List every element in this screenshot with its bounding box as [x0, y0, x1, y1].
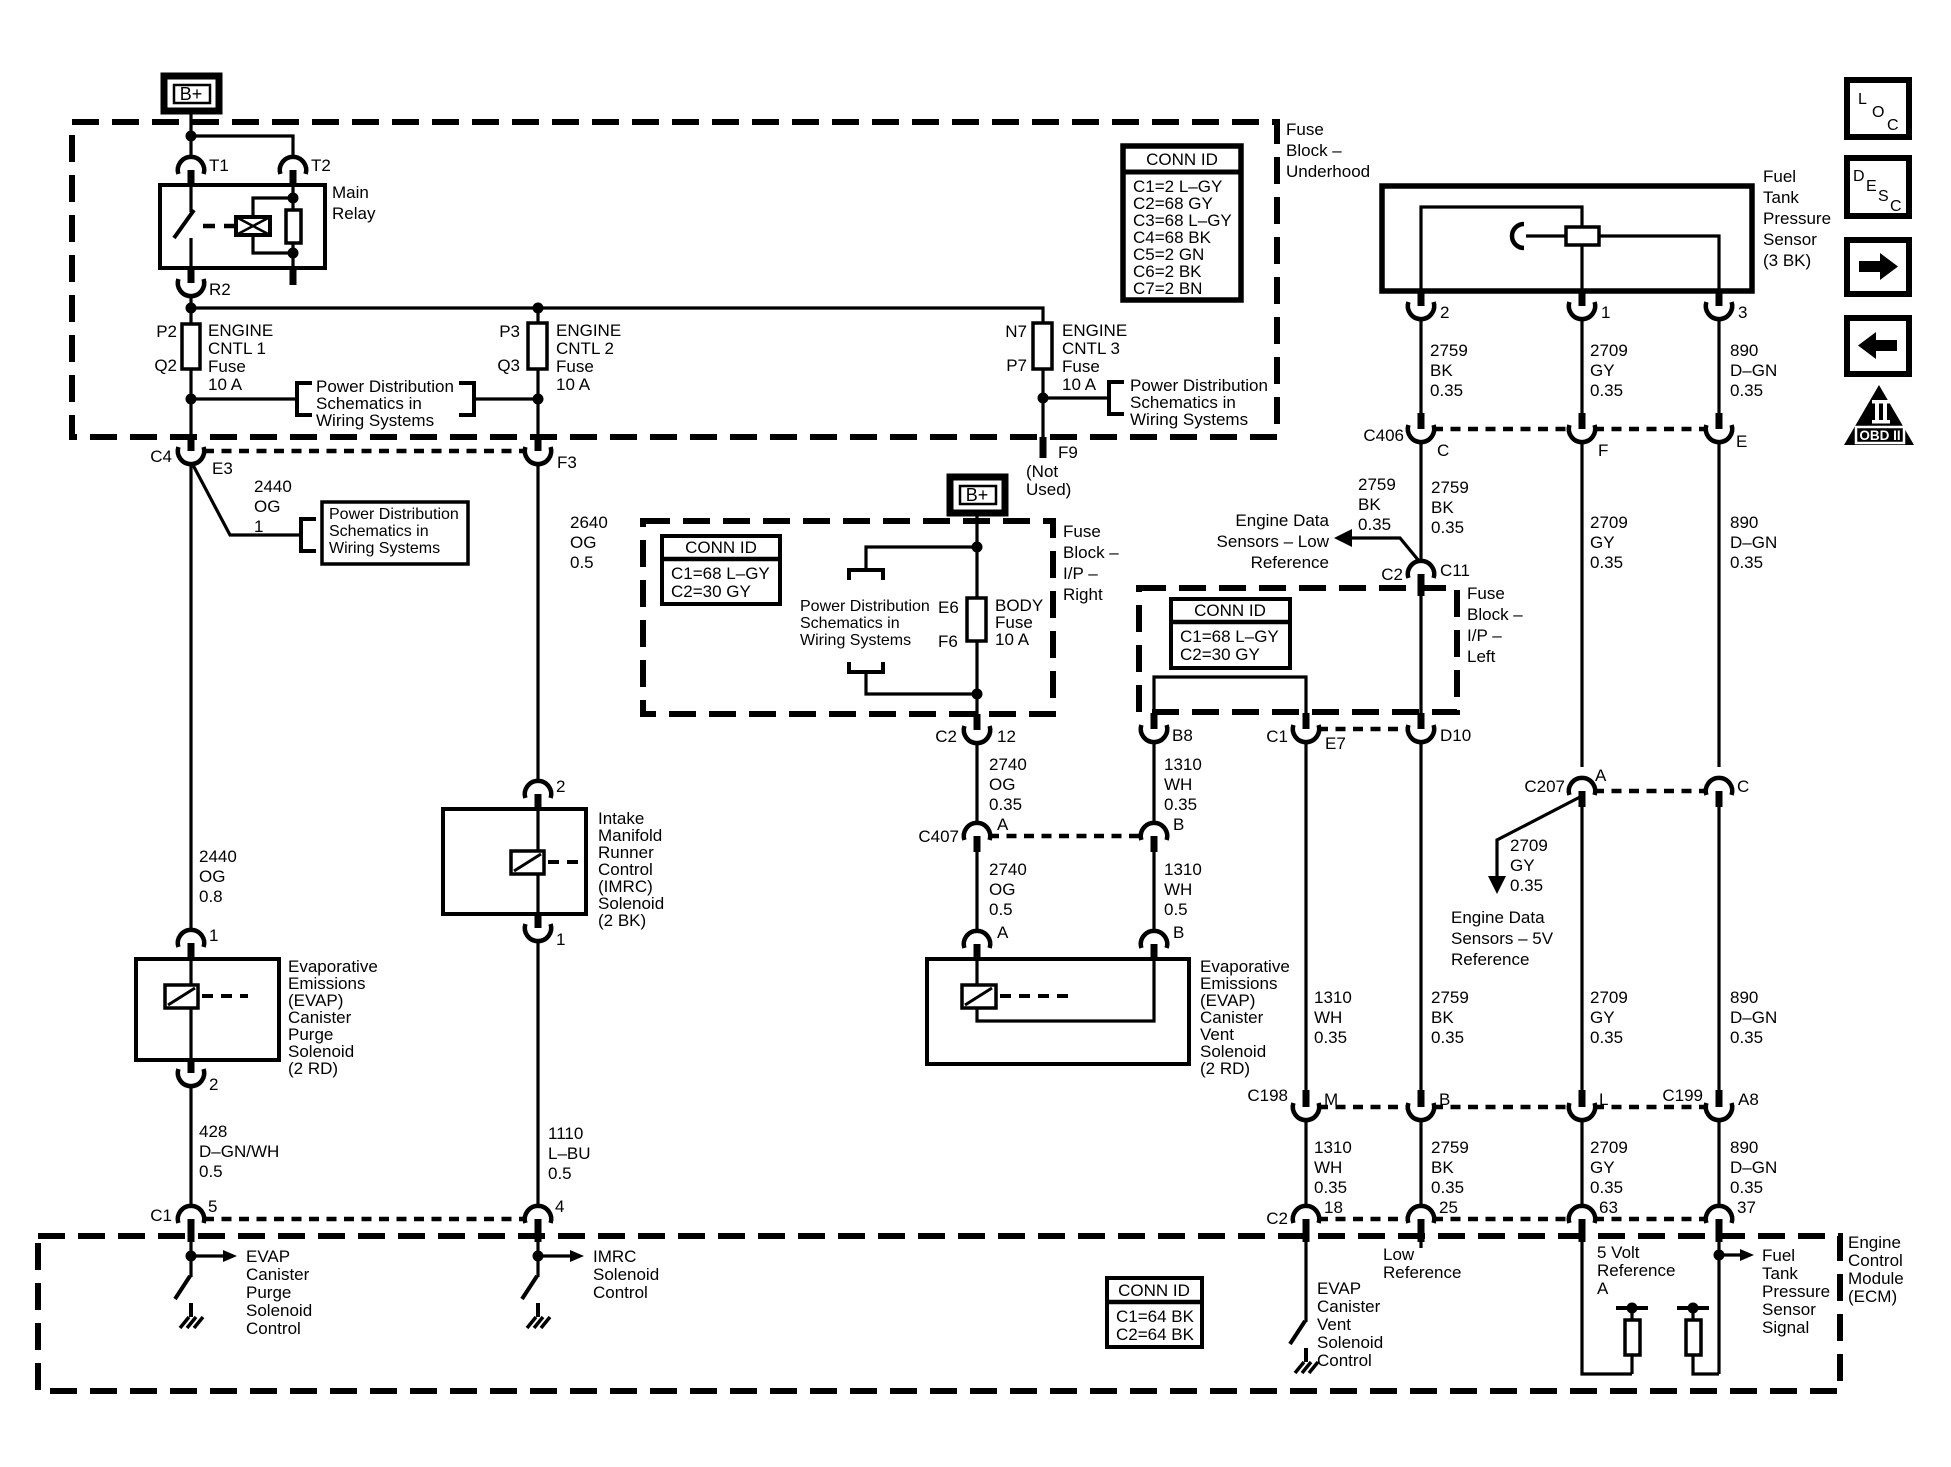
relay K1 Main Relay box	[160, 185, 325, 268]
svg-text:E6: E6	[938, 598, 959, 617]
svg-text:Q3: Q3	[497, 356, 520, 375]
svg-text:OG: OG	[989, 880, 1015, 899]
connector C4 pin E3	[150, 437, 233, 478]
svg-text:Underhood: Underhood	[1286, 162, 1370, 181]
svg-text:Schematics in: Schematics in	[800, 615, 900, 632]
connector row C198 dotted	[1318, 1105, 1707, 1110]
svg-text:Main: Main	[332, 183, 369, 202]
wire 890 D-GN 0.35 C207 to C199	[1717, 807, 1720, 1090]
svg-text:C11: C11	[1440, 561, 1470, 580]
wire C11 to D10 internal	[1419, 596, 1422, 713]
svg-text:Engine Data: Engine Data	[1451, 908, 1545, 927]
svg-text:Block –: Block –	[1467, 605, 1523, 624]
svg-text:CONN ID: CONN ID	[1146, 150, 1218, 169]
svg-text:GY: GY	[1590, 533, 1615, 552]
connector vent solenoid pin B	[1141, 923, 1185, 959]
fuse F2 ENGINE CNTL 2	[497, 308, 621, 394]
svg-text:0.5: 0.5	[1164, 900, 1188, 919]
svg-text:0.5: 0.5	[570, 553, 594, 572]
svg-text:N7: N7	[1005, 322, 1027, 341]
label wire 1110 L-BU 0.5	[548, 1124, 591, 1183]
svg-text:BK: BK	[1431, 1008, 1454, 1027]
svg-text:10 A: 10 A	[556, 375, 591, 394]
wire ECM fuel tank pressure signal pin	[1717, 1242, 1720, 1374]
svg-text:Power Distribution: Power Distribution	[329, 506, 459, 523]
label wire 2440 OG 0.8	[199, 847, 237, 906]
svg-text:EVAP: EVAP	[246, 1247, 290, 1266]
svg-text:Fuse: Fuse	[208, 357, 246, 376]
wire ECM evap purge driver	[189, 1242, 192, 1277]
wire fuse2 to F3 edge	[536, 369, 539, 437]
svg-text:ENGINE: ENGINE	[1062, 321, 1127, 340]
label wire 890 D-GN 0.35 top	[1730, 341, 1777, 400]
label wire 2740 OG 0.5	[989, 860, 1027, 919]
svg-text:Sensors – Low: Sensors – Low	[1217, 532, 1330, 551]
table CONN ID ECM	[1107, 1278, 1202, 1347]
connector purge solenoid pin 2	[178, 1060, 219, 1094]
svg-text:0.35: 0.35	[1358, 515, 1391, 534]
wire 2709 GY 0.35 C406 to C207	[1580, 441, 1583, 767]
label wire 2709 GY 0.35 mid	[1590, 513, 1628, 572]
node junction purge driver	[186, 1251, 197, 1262]
svg-text:B: B	[1173, 923, 1184, 942]
svg-text:2: 2	[209, 1075, 218, 1094]
svg-text:Schematics in: Schematics in	[329, 523, 429, 540]
label 5 Volt Reference A	[1597, 1243, 1675, 1298]
svg-text:E7: E7	[1325, 734, 1346, 753]
svg-text:B: B	[1439, 1090, 1450, 1109]
wire C406-C to C11	[1419, 441, 1422, 562]
svg-text:Solenoid: Solenoid	[246, 1301, 312, 1320]
label wire 2440 OG 1	[254, 477, 292, 536]
node junction P7	[1038, 393, 1049, 404]
svg-text:(2 RD): (2 RD)	[1200, 1059, 1250, 1078]
wire to PDS bracket CNTL1	[191, 397, 296, 400]
svg-text:GY: GY	[1510, 856, 1535, 875]
wire to PDS bracket CNTL3	[1043, 396, 1109, 399]
battery feed B+ symbol	[164, 76, 219, 111]
svg-text:OG: OG	[989, 775, 1015, 794]
connector row C2 ECM dotted	[1318, 1217, 1707, 1222]
node junction at B+ branch	[186, 131, 197, 142]
solenoid L3 EVAP canister vent	[927, 959, 1189, 1064]
svg-text:890: 890	[1730, 513, 1758, 532]
svg-text:OG: OG	[570, 533, 596, 552]
connector C199 pin A8	[1662, 1086, 1758, 1120]
svg-text:4: 4	[555, 1197, 564, 1216]
connector C2 pin C11	[1381, 561, 1470, 596]
svg-text:P3: P3	[499, 322, 520, 341]
svg-text:Canister: Canister	[1317, 1297, 1381, 1316]
svg-text:2: 2	[1440, 303, 1449, 322]
wire branch to PDS bracket	[866, 547, 977, 569]
connector C2 pin 12	[935, 714, 1016, 746]
icon OBD II triangle	[1844, 385, 1914, 445]
wire B+ down to T1	[189, 111, 192, 158]
svg-text:BK: BK	[1431, 1158, 1454, 1177]
svg-text:I/P –: I/P –	[1063, 564, 1098, 583]
connector IMRC solenoid pin 2	[525, 777, 566, 809]
connector R2	[178, 268, 231, 299]
svg-text:Q2: Q2	[154, 356, 177, 375]
svg-text:Engine Data: Engine Data	[1235, 511, 1329, 530]
connector IMRC solenoid pin 1	[525, 914, 566, 949]
svg-text:B: B	[1173, 815, 1184, 834]
svg-text:GY: GY	[1590, 1158, 1615, 1177]
svg-text:0.35: 0.35	[1590, 1028, 1623, 1047]
svg-text:2759: 2759	[1431, 478, 1469, 497]
connector C207 pin C	[1706, 777, 1749, 807]
fuse block underhood dashed box	[72, 122, 1277, 437]
label wire 2759 BK 0.35 branch	[1358, 475, 1396, 534]
svg-text:B+: B+	[966, 485, 989, 505]
wire ECM low reference pin	[1419, 1242, 1422, 1248]
node feed junction R2	[186, 303, 197, 314]
svg-text:B+: B+	[180, 84, 203, 104]
wire T2 stub below relay	[290, 268, 297, 285]
wire arrow fuel tank pressure sensor signal	[1719, 1249, 1754, 1261]
svg-text:Wiring Systems: Wiring Systems	[316, 411, 434, 430]
svg-text:C1: C1	[1266, 727, 1288, 746]
svg-text:C2=64 BK: C2=64 BK	[1116, 1325, 1195, 1344]
fuse block I/P right dashed box	[643, 521, 1053, 714]
svg-text:2759: 2759	[1430, 341, 1468, 360]
relay coil crossed box	[236, 217, 270, 235]
ground ECM purge driver	[180, 1317, 203, 1328]
label wire 1310 WH 0.35 lower	[1314, 1138, 1352, 1197]
svg-text:Reference: Reference	[1597, 1261, 1675, 1280]
svg-text:BK: BK	[1431, 498, 1454, 517]
svg-text:CNTL 3: CNTL 3	[1062, 339, 1120, 358]
label wire 2709 GY 0.35 lower	[1590, 1138, 1628, 1197]
solenoid L1 EVAP canister purge	[136, 959, 279, 1060]
battery feed B+ symbol I/P	[950, 477, 1005, 513]
wire 2759 BK 0.35 D10 to C198	[1419, 741, 1422, 1090]
svg-text:2640: 2640	[570, 513, 608, 532]
wire arrow EVAP purge control	[191, 1250, 237, 1262]
wire R2 down to fuse	[189, 295, 192, 324]
svg-text:0.35: 0.35	[1590, 553, 1623, 572]
connector C1 pin 5	[150, 1197, 217, 1242]
label wire 2709 GY 0.35 branch	[1510, 836, 1548, 895]
svg-text:(Not: (Not	[1026, 462, 1058, 481]
label wire 890 D-GN 0.35 to C199	[1730, 988, 1777, 1047]
svg-text:Wiring Systems: Wiring Systems	[329, 540, 440, 557]
svg-text:10 A: 10 A	[995, 630, 1030, 649]
svg-text:Engine: Engine	[1848, 1233, 1901, 1252]
svg-text:0.35: 0.35	[1730, 1178, 1763, 1197]
connector purge solenoid pin 1	[178, 926, 219, 959]
svg-text:Tank: Tank	[1762, 1264, 1798, 1283]
svg-text:GY: GY	[1590, 1008, 1615, 1027]
connector sensor pin 2	[1408, 291, 1450, 322]
svg-text:CNTL 2: CNTL 2	[556, 339, 614, 358]
svg-text:D–GN: D–GN	[1730, 361, 1777, 380]
svg-text:C: C	[1737, 777, 1749, 796]
svg-text:Reference: Reference	[1383, 1263, 1461, 1282]
svg-text:2709: 2709	[1510, 836, 1548, 855]
connector C406 pin E	[1706, 413, 1748, 451]
wire 2709 GY 0.35 C198 to ECM	[1580, 1119, 1583, 1207]
switch ECM purge driver	[175, 1276, 191, 1317]
label Fuse Block - I/P - Left	[1467, 584, 1523, 666]
svg-text:WH: WH	[1164, 880, 1192, 899]
wire BODY fuse down	[975, 641, 978, 714]
svg-text:C: C	[1887, 117, 1899, 134]
svg-text:Pressure: Pressure	[1762, 1282, 1830, 1301]
svg-text:T2: T2	[311, 156, 331, 175]
label wire 2740 OG 0.35	[989, 755, 1027, 814]
svg-text:Sensor: Sensor	[1762, 1300, 1816, 1319]
wire E3 diagonal branch	[193, 465, 301, 535]
svg-text:Reference: Reference	[1451, 950, 1529, 969]
fuse BODY 10A	[938, 596, 1043, 651]
label wire 2759 BK 0.35 to C198	[1431, 988, 1469, 1047]
svg-text:Power Distribution: Power Distribution	[800, 598, 930, 615]
wire 890 D-GN 0.35 C406 to C207	[1717, 441, 1720, 767]
wire 2740 OG 0.5 run	[975, 852, 978, 932]
wire 1310 WH 0.5 run	[1152, 852, 1155, 932]
svg-text:Sensors – 5V: Sensors – 5V	[1451, 929, 1554, 948]
wire fuse3 down	[1041, 369, 1044, 437]
svg-text:ENGINE: ENGINE	[556, 321, 621, 340]
svg-text:Solenoid: Solenoid	[593, 1265, 659, 1284]
table CONN ID underhood	[1123, 146, 1241, 300]
node coil bottom junction	[288, 248, 299, 259]
svg-text:37: 37	[1737, 1198, 1756, 1217]
svg-text:L–BU: L–BU	[548, 1144, 591, 1163]
svg-text:Reference: Reference	[1251, 553, 1329, 572]
connector C1 pin E7	[1266, 713, 1346, 753]
relay actuator dashed link	[203, 224, 234, 229]
wire 890 D-GN 0.35 C199 to ECM	[1717, 1119, 1720, 1207]
label Engine Data Sensors - Low Reference	[1217, 511, 1330, 572]
svg-text:0.35: 0.35	[1590, 381, 1623, 400]
svg-text:Relay: Relay	[332, 204, 376, 223]
svg-text:2759: 2759	[1431, 988, 1469, 1007]
svg-text:C407: C407	[918, 827, 959, 846]
svg-text:5: 5	[208, 1197, 217, 1216]
label PDS bracket pair CNTL1	[297, 377, 474, 430]
label Fuse Block - I/P - Right	[1063, 522, 1119, 604]
wire 2640 OG 0.5 run	[536, 463, 539, 782]
svg-text:C199: C199	[1662, 1086, 1703, 1105]
svg-text:Tank: Tank	[1763, 188, 1799, 207]
label wire 2759 BK 0.35 top	[1430, 341, 1468, 400]
connector T2	[280, 156, 331, 185]
module ECM dashed box	[38, 1236, 1840, 1391]
svg-text:Block –: Block –	[1286, 141, 1342, 160]
svg-text:L: L	[1599, 1090, 1608, 1109]
svg-text:B8: B8	[1172, 726, 1193, 745]
svg-text:63: 63	[1599, 1198, 1618, 1217]
label Main Relay	[332, 183, 376, 223]
connector C1 pin D10	[1408, 713, 1471, 745]
svg-text:Left: Left	[1467, 647, 1496, 666]
connector C2 pin 18	[1266, 1198, 1343, 1242]
node junction Q2	[186, 394, 197, 405]
label EVAP canister vent solenoid	[1200, 957, 1290, 1078]
svg-text:10 A: 10 A	[208, 375, 243, 394]
svg-text:Wiring Systems: Wiring Systems	[800, 632, 911, 649]
wire bracket bottom to fuse out	[866, 672, 977, 694]
svg-text:P2: P2	[156, 322, 177, 341]
svg-text:Fuse: Fuse	[1062, 357, 1100, 376]
sensor fuel tank pressure box	[1382, 186, 1752, 291]
wire fuse block internal route	[1154, 677, 1306, 713]
wire 2709 GY 0.35 sensor to C406	[1580, 318, 1583, 413]
connector C198 pin M	[1247, 1086, 1338, 1120]
svg-text:Fuse: Fuse	[1286, 120, 1324, 139]
switch ECM IMRC driver	[522, 1276, 538, 1317]
label wire 890 D-GN 0.35 lower	[1730, 1138, 1777, 1197]
wire coil top link	[253, 198, 293, 217]
wire ECM vent driver	[1304, 1242, 1307, 1322]
resistor ECM pullup 2	[1677, 1303, 1719, 1375]
svg-text:2440: 2440	[199, 847, 237, 866]
wire 2759 BK 0.35 sensor to C406	[1419, 318, 1422, 413]
wire 428 D-GN/WH 0.5 run	[189, 1085, 192, 1207]
svg-text:Fuse: Fuse	[1467, 584, 1505, 603]
svg-text:0.35: 0.35	[1730, 1028, 1763, 1047]
label PDS text I/P right	[800, 598, 930, 649]
svg-text:CONN ID: CONN ID	[1118, 1281, 1190, 1300]
wire 2759 BK 0.35 C198 to ECM	[1419, 1119, 1422, 1207]
svg-text:R2: R2	[209, 280, 231, 299]
svg-text:S: S	[1878, 188, 1889, 205]
wire 1310 WH 0.35 C198 to ECM	[1304, 1119, 1307, 1207]
svg-text:5 Volt: 5 Volt	[1597, 1243, 1640, 1262]
relay switch contact	[174, 185, 194, 268]
svg-text:D–GN: D–GN	[1730, 1158, 1777, 1177]
svg-text:BK: BK	[1358, 495, 1381, 514]
wire feed rail to CNTL3	[191, 308, 1043, 323]
connector C4 pin F3	[525, 437, 577, 472]
connector C2 pin 25	[1408, 1198, 1458, 1242]
label Fuel Tank Pressure Sensor (3 BK)	[1763, 167, 1831, 270]
svg-text:CNTL 1: CNTL 1	[208, 339, 266, 358]
svg-text:C1=64 BK: C1=64 BK	[1116, 1307, 1195, 1326]
label PDS bracket bottom	[849, 662, 883, 672]
icon LOC box	[1847, 80, 1909, 137]
svg-text:Fuse: Fuse	[556, 357, 594, 376]
connector C406 pin F	[1569, 413, 1609, 460]
svg-text:EVAP: EVAP	[1317, 1279, 1361, 1298]
svg-text:P7: P7	[1006, 356, 1027, 375]
svg-text:C1=68 L–GY: C1=68 L–GY	[1180, 627, 1279, 646]
connector C406 pin C	[1363, 413, 1449, 460]
svg-text:2709: 2709	[1590, 341, 1628, 360]
svg-text:18: 18	[1324, 1198, 1343, 1217]
wire F9 not used stub	[1040, 437, 1047, 458]
wire 2440 OG 0.8 run	[189, 463, 192, 931]
label wire 2709 GY 0.35 to C198	[1590, 988, 1628, 1047]
svg-text:2759: 2759	[1358, 475, 1396, 494]
svg-text:CONN ID: CONN ID	[1194, 601, 1266, 620]
svg-text:25: 25	[1439, 1198, 1458, 1217]
svg-text:0.35: 0.35	[1314, 1178, 1347, 1197]
svg-text:(3 BK): (3 BK)	[1763, 251, 1811, 270]
svg-text:2759: 2759	[1431, 1138, 1469, 1157]
svg-text:1310: 1310	[1164, 755, 1202, 774]
connector C207 pin A	[1524, 766, 1607, 807]
label Fuse Block - Underhood	[1286, 120, 1370, 181]
svg-text:C2: C2	[935, 727, 957, 746]
svg-text:D–GN/WH: D–GN/WH	[199, 1142, 279, 1161]
label IMRC solenoid control	[593, 1247, 659, 1302]
wire 890 D-GN 0.35 sensor to C406	[1717, 318, 1720, 413]
svg-text:1: 1	[254, 517, 263, 536]
connector row C1 dotted	[204, 1217, 524, 1222]
svg-text:1: 1	[209, 926, 218, 945]
svg-text:0.35: 0.35	[1430, 381, 1463, 400]
svg-text:ENGINE: ENGINE	[208, 321, 273, 340]
svg-text:A: A	[1595, 766, 1607, 785]
node coil top junction	[288, 193, 299, 204]
svg-text:C2=30 GY: C2=30 GY	[1180, 645, 1260, 664]
svg-text:CONN ID: CONN ID	[685, 538, 757, 557]
svg-text:0.35: 0.35	[1590, 1178, 1623, 1197]
wire ECM IMRC driver	[536, 1242, 539, 1277]
label EVAP canister purge solenoid control	[246, 1247, 312, 1338]
node junction signal arrow	[1714, 1250, 1725, 1261]
svg-text:0.35: 0.35	[1431, 1178, 1464, 1197]
icon DESC box	[1847, 158, 1909, 216]
svg-text:C2: C2	[1266, 1209, 1288, 1228]
connector row C4 dotted	[204, 449, 524, 454]
label wire 1310 WH 0.35 upper	[1164, 755, 1202, 814]
svg-text:GY: GY	[1590, 361, 1615, 380]
svg-text:2740: 2740	[989, 860, 1027, 879]
svg-text:F3: F3	[557, 453, 577, 472]
svg-text:(ECM): (ECM)	[1848, 1287, 1897, 1306]
connector sensor pin 3	[1706, 291, 1748, 322]
svg-text:1: 1	[556, 930, 565, 949]
connector B8	[1141, 713, 1193, 745]
wire branch to T2	[191, 136, 293, 158]
node junction Q3	[533, 394, 544, 405]
label wire 2759 BK 0.35 below C406	[1431, 478, 1469, 537]
svg-text:C207: C207	[1524, 777, 1565, 796]
label PDS bracket top	[849, 570, 883, 580]
connector C198 pin L	[1569, 1090, 1609, 1120]
fuse block I/P left dashed box	[1139, 588, 1457, 712]
resistor ECM pullup 1	[1616, 1303, 1648, 1375]
wire fuse1 to C4 edge	[189, 369, 192, 437]
label EVAP canister vent solenoid control	[1317, 1279, 1383, 1370]
svg-text:890: 890	[1730, 1138, 1758, 1157]
svg-text:BK: BK	[1430, 361, 1453, 380]
svg-text:C198: C198	[1247, 1086, 1288, 1105]
wire arrow engine data sensors 5V reference	[1488, 797, 1580, 894]
label wire 2640 OG 0.5	[570, 513, 608, 572]
svg-text:Used): Used)	[1026, 480, 1071, 499]
svg-text:2440: 2440	[254, 477, 292, 496]
svg-text:A8: A8	[1738, 1090, 1759, 1109]
connector row C406 dotted	[1433, 427, 1707, 432]
svg-text:0.8: 0.8	[199, 887, 223, 906]
label F9 (Not Used)	[1026, 443, 1078, 499]
wire coil bottom link	[253, 235, 293, 253]
connector vent solenoid pin A	[964, 923, 1009, 959]
icon arrow left box	[1847, 318, 1909, 374]
svg-text:D–GN: D–GN	[1730, 1008, 1777, 1027]
label Low Reference	[1383, 1245, 1461, 1282]
svg-text:0.35: 0.35	[1431, 518, 1464, 537]
wire arrow engine data sensors low reference	[1334, 529, 1419, 561]
connector C2 pin 63	[1569, 1198, 1618, 1242]
label PDS box E3	[322, 502, 468, 564]
